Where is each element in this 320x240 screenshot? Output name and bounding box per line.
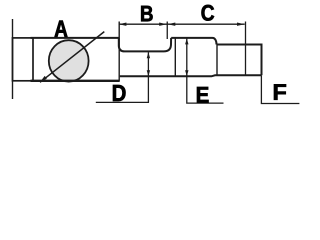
shoulder step down	[213, 38, 217, 45]
groove profile	[119, 38, 171, 52]
top edge after groove	[171, 37, 212, 39]
label B	[141, 6, 152, 21]
transition line at groove start	[118, 22, 120, 81]
extension line F with underline	[261, 75, 299, 103]
extension line between B and C	[166, 22, 168, 40]
end cap outline	[13, 38, 34, 81]
leader E with underline	[187, 38, 224, 103]
label F	[274, 84, 286, 100]
arrow B left	[119, 23, 127, 26]
arrow E up	[185, 38, 188, 44]
arrow C right	[237, 23, 245, 26]
label C	[202, 5, 215, 21]
transition line at groove end	[174, 38, 176, 76]
label E	[197, 87, 209, 103]
transition / extension line at tip step	[245, 22, 247, 76]
extension line left face	[12, 19, 14, 99]
main section bottom edge	[31, 80, 120, 82]
main section top edge	[31, 37, 119, 39]
ball A	[49, 40, 89, 81]
diagonal leader through ball	[40, 32, 104, 83]
arrow B right	[159, 23, 167, 26]
arrow D up	[147, 52, 150, 58]
dimension line B C	[119, 23, 245, 25]
transition line at shoulder	[216, 45, 218, 76]
arrow D down	[147, 70, 150, 76]
arrow E down	[185, 70, 188, 76]
arrow on diagonal lower end	[40, 76, 47, 82]
right section top edge	[217, 44, 262, 46]
bottom edge right of step	[120, 75, 262, 76]
label A	[55, 21, 68, 37]
leader D with underline	[96, 52, 149, 102]
arrow C left	[168, 23, 176, 26]
label D	[113, 85, 126, 101]
end face	[261, 44, 263, 76]
